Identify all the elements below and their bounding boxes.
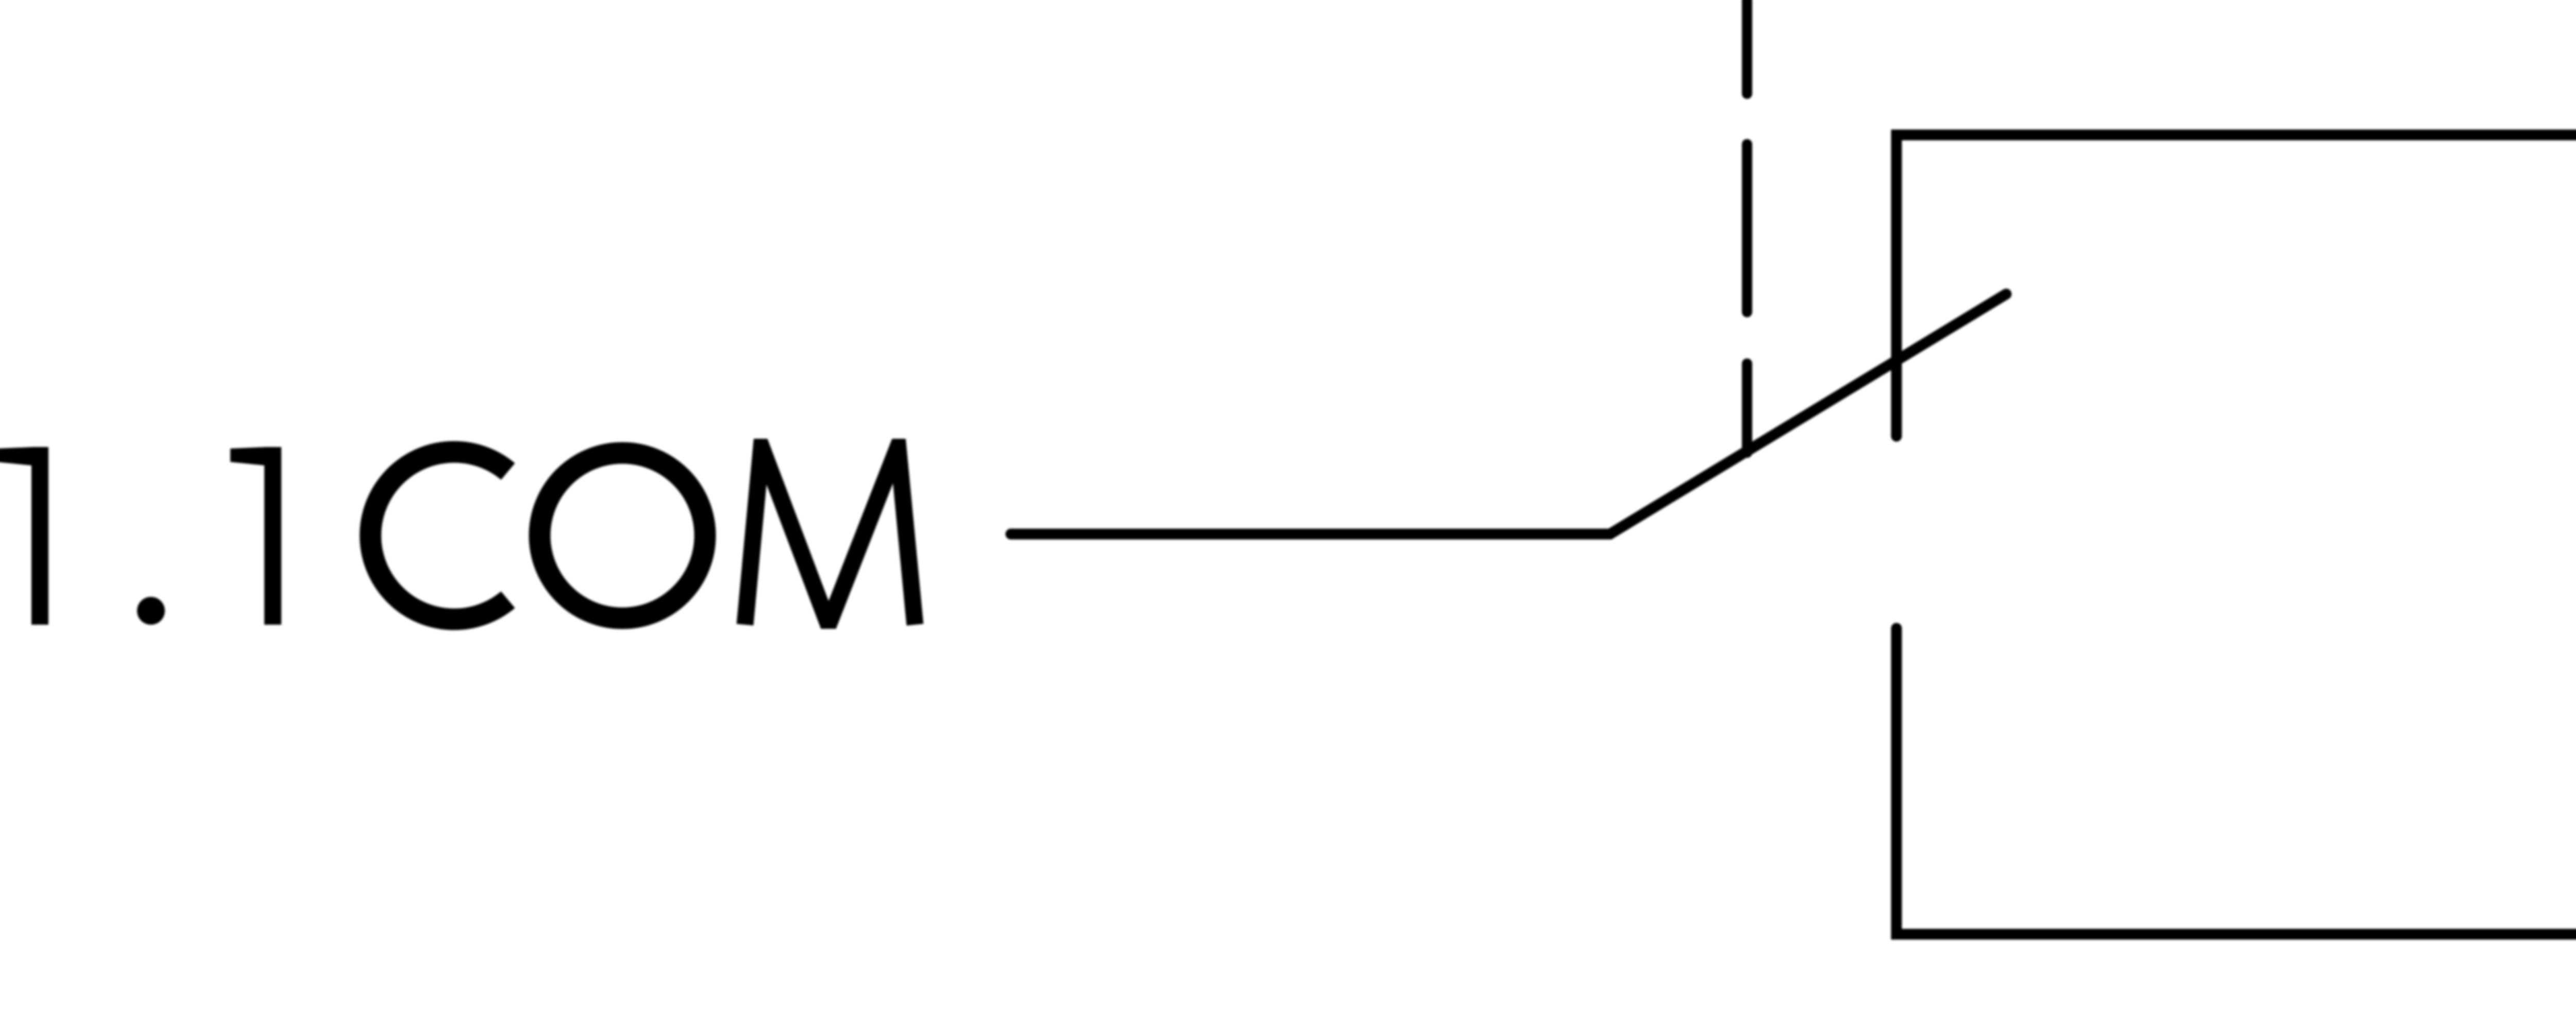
wire: COM lead and movable switch arm [1011,294,2006,534]
actuator dashed line (plunger linkage) [1742,0,1752,453]
wire: NC fixed contact (vertical stub and horizontal lead to 1.2NC) [1896,135,2576,436]
wire: NO fixed contact (vertical stub and horizontal lead to 1.4NO) [1896,628,2576,934]
pin label 1.1COM (common terminal) [0,439,923,629]
